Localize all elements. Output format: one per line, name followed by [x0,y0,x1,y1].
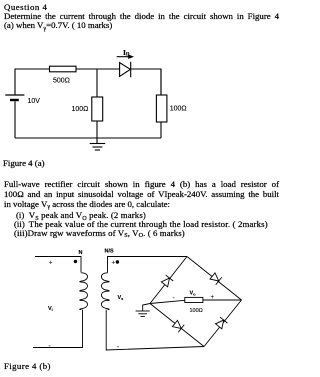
svg-text:+: + [211,295,215,301]
wire: fig4b secondary bottom lead [106,310,204,350]
svg-text:100Ω: 100Ω [72,106,89,113]
svg-text:+: + [112,261,116,267]
wire: bridge center right of resistor [203,299,242,301]
diode D3 (left-bottom edge) [172,320,184,332]
wire: bridge edge left-bottom [150,304,204,347]
svg-text:Vi: Vi [48,306,53,312]
wire: fig4a right branch upper [160,69,162,95]
diode D2 (top-right edge) [209,272,221,284]
node: primary dot [74,260,77,263]
ground fig4b bar1 [136,310,150,312]
wire: fig4b secondary top lead [108,257,188,273]
wire: fig4a middle branch upper [96,69,98,97]
svg-text:+: + [49,261,53,267]
wire: fig4b primary top lead [35,257,81,273]
wire: fig4a bottom wire [15,137,161,139]
svg-text:N/S: N/S [105,249,115,255]
wire: fig4a left wire below battery [14,101,16,138]
svg-text:100Ω: 100Ω [190,308,203,314]
svg-text:-: - [117,345,119,351]
battery V1 short plate [10,99,19,101]
wire: bridge edge bottom-right [204,300,242,347]
wire: bridge edge top-right [187,257,242,301]
inductor primary winding [80,273,88,310]
svg-text:100Ω: 100Ω [170,106,187,113]
wire: fig4a top wire left segment [15,69,50,95]
ground fig4a bar3 [95,149,100,151]
wire: bridge center left of resistor [150,300,185,303]
diode D fig4a cathode bar [130,62,132,77]
wire: fig4a top wire middle segment [76,68,120,70]
wire: ground stub fig4b [143,304,150,312]
current arrow ID shaft [117,56,130,58]
svg-text:ID: ID [123,48,130,58]
wire: bridge edge left-top [150,257,187,304]
ground fig4b bar3 [141,315,145,317]
node: secondary dot [116,260,119,263]
wire: fig4b primary bottom lead [33,310,83,348]
ground fig4a bar2 [93,146,103,148]
svg-text:Vs: Vs [118,295,125,301]
svg-text:10V: 10V [28,98,41,105]
inductor secondary winding [101,273,109,310]
diode D4 (bottom-right edge) [215,317,227,329]
svg-text:N: N [79,250,83,256]
svg-text:500Ω: 500Ω [53,78,70,85]
wire: fig4a middle branch lower [96,121,98,144]
svg-text:-: - [49,344,51,350]
wire: fig4a top wire right segment [131,69,161,95]
resistor RL 100ohm body [185,297,203,302]
diode D1 (left-top edge) [161,275,173,287]
resistor R2 100ohm body (middle) [92,97,103,121]
resistor R3 100ohm body (right) [156,95,167,122]
wire: fig4a right branch lower [160,122,162,138]
resistor R1 500ohm body [50,66,77,72]
svg-text:-: - [173,296,175,302]
ground fig4a bar1 [90,143,106,145]
ground fig4b bar2 [138,313,147,315]
battery V1 long plate [5,94,24,96]
diode D fig4a triangle [120,63,131,77]
svg-text:Vo: Vo [190,291,197,297]
current arrow ID head [128,54,134,59]
